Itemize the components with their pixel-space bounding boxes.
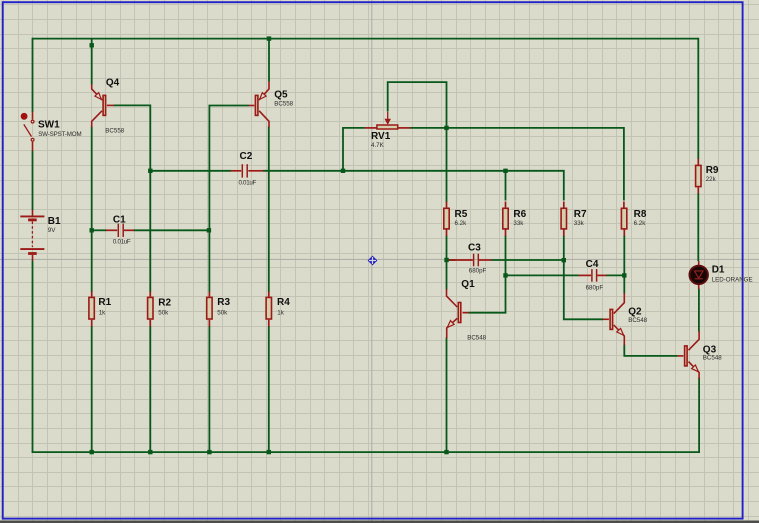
resistor R7 <box>561 202 566 237</box>
wire D1 to Q3 collector <box>698 289 700 332</box>
origin marker <box>368 256 378 266</box>
junction R6 top bus node <box>503 169 507 173</box>
wire R6 bottom to C4 node to Q1 base <box>469 236 506 313</box>
wire RV1 right terminal line to R8 <box>410 128 624 201</box>
svg-text:33k: 33k <box>574 220 585 227</box>
wire bus node to C2 left <box>150 170 231 172</box>
svg-text:1k: 1k <box>99 310 106 317</box>
svg-text:9V: 9V <box>48 227 56 234</box>
transistor Q2 <box>603 293 625 345</box>
svg-text:D1: D1 <box>712 264 725 275</box>
transistor Q4 <box>92 84 114 127</box>
potentiometer RV1 <box>365 112 411 129</box>
wire Q5 emitter to top rail <box>268 39 270 82</box>
svg-text:33k: 33k <box>513 220 524 227</box>
svg-text:R3: R3 <box>217 297 230 308</box>
svg-text:R6: R6 <box>513 209 526 220</box>
svg-text:RV1: RV1 <box>371 131 391 142</box>
svg-text:R8: R8 <box>634 209 647 220</box>
junction top rail Q5 emitter <box>267 36 271 40</box>
LED D1 <box>690 261 708 289</box>
wire R6 top drop <box>505 171 507 201</box>
battery B1 <box>20 210 44 261</box>
svg-text:680pF: 680pF <box>469 267 487 274</box>
wire Q5 collector to R4 to rail <box>268 127 270 453</box>
junction ground rail R2 <box>148 450 152 454</box>
origin axis vertical line <box>371 0 373 521</box>
resistor R4 <box>266 292 271 327</box>
wire C3 right to R7 node <box>491 259 564 261</box>
wire SW1 to B1 <box>32 151 34 211</box>
resistor R6 <box>503 202 508 237</box>
svg-text:SW1: SW1 <box>38 120 60 131</box>
svg-text:4.7K: 4.7K <box>371 142 385 149</box>
junction C1 left node <box>90 228 94 232</box>
junction ground rail R4 <box>267 450 271 454</box>
wire R8 bottom to Q2 collector <box>623 236 625 294</box>
svg-text:1k: 1k <box>277 310 284 317</box>
wire left rail top (rail to SW1) <box>32 38 34 112</box>
origin axis horizontal line <box>0 258 759 260</box>
svg-text:6.2k: 6.2k <box>455 220 468 227</box>
svg-text:50k: 50k <box>158 310 169 317</box>
resistor R8 <box>621 202 626 237</box>
svg-text:R5: R5 <box>455 209 468 220</box>
svg-text:R2: R2 <box>158 297 171 308</box>
svg-text:BC548: BC548 <box>628 317 647 324</box>
resistor R5 <box>444 202 449 237</box>
junction RV1 left bus node <box>341 169 345 173</box>
capacitor C4 <box>579 269 607 282</box>
svg-text:LED-ORANGE: LED-ORANGE <box>712 277 753 284</box>
wire Q4 collector to R1 to rail <box>91 127 93 453</box>
svg-text:Q1: Q1 <box>461 279 475 290</box>
junction ground rail R1 <box>90 450 94 454</box>
junction bus left node <box>148 169 152 173</box>
junction ground rail R3 <box>207 450 211 454</box>
switch SW1 <box>21 112 34 152</box>
wire node to R2 to rail <box>149 171 151 452</box>
svg-text:Q5: Q5 <box>274 90 288 101</box>
svg-text:C3: C3 <box>468 243 481 254</box>
svg-text:680pF: 680pF <box>586 284 604 291</box>
resistor R2 <box>148 292 153 327</box>
transistor Q1 <box>447 289 469 338</box>
wire C4 left <box>506 274 580 276</box>
capacitor C1 <box>106 224 134 237</box>
wire Q4 base down to node <box>114 105 151 170</box>
wire B1 to bottom rail <box>32 261 34 453</box>
svg-text:BC558: BC558 <box>105 128 124 135</box>
wire Q2 emitter to Q3 base <box>624 345 677 356</box>
junction top rail Q4 emitter <box>90 43 94 47</box>
junction RV1 right node <box>444 126 448 130</box>
wire C2 right bus to R7 top <box>263 171 564 201</box>
capacitor C3 <box>449 254 491 267</box>
wire RV1 left terminal to bus <box>343 128 365 171</box>
svg-text:BC548: BC548 <box>703 354 722 361</box>
junction C4 left node <box>503 273 507 277</box>
wire Q3 emitter to ground rail <box>698 378 700 454</box>
wire C4 right to R8 node <box>606 274 624 276</box>
svg-text:BC548: BC548 <box>467 334 486 341</box>
svg-text:BC558: BC558 <box>274 101 293 108</box>
wire R5 top drop <box>446 128 448 202</box>
svg-text:0.01uF: 0.01uF <box>113 238 131 245</box>
junction C4 right node <box>622 273 626 277</box>
junction C1 right node <box>207 228 211 232</box>
capacitor C2 <box>231 164 263 177</box>
svg-text:SW-SPST-MOM: SW-SPST-MOM <box>38 131 81 138</box>
svg-text:R7: R7 <box>574 209 587 220</box>
svg-text:0.01uF: 0.01uF <box>239 180 257 187</box>
wire Q5 base to R3 to rail <box>209 106 248 453</box>
svg-text:B1: B1 <box>48 216 61 227</box>
wire C1 left <box>92 229 107 231</box>
svg-text:6.2k: 6.2k <box>634 220 647 227</box>
svg-text:C1: C1 <box>113 215 126 226</box>
svg-text:Q2: Q2 <box>628 306 642 317</box>
svg-text:R4: R4 <box>277 297 290 308</box>
svg-text:Q4: Q4 <box>106 78 120 89</box>
junction ground rail Q1 emitter <box>444 450 448 454</box>
svg-text:R1: R1 <box>98 297 111 308</box>
wire R9 top to rail <box>697 38 699 159</box>
wire R9 bottom to D1 <box>697 193 699 261</box>
resistor R1 <box>89 292 94 327</box>
junction C3 right node <box>562 258 566 262</box>
junction C3 left node <box>444 258 448 262</box>
svg-text:50k: 50k <box>217 310 228 317</box>
wire top supply rail <box>33 38 699 40</box>
wire R7 bottom to Q2 base <box>564 236 603 320</box>
wire bottom ground rail <box>32 451 700 453</box>
wire C3 left <box>447 259 456 261</box>
wire Q4 emitter to top rail <box>91 39 93 85</box>
transistor Q3 <box>678 331 700 379</box>
resistor R3 <box>207 292 212 327</box>
svg-text:C2: C2 <box>240 151 253 162</box>
wire C1 right <box>134 229 209 231</box>
svg-text:22k: 22k <box>706 176 717 183</box>
wire RV1 wiper loop <box>388 82 447 128</box>
wire Q1 emitter to ground rail <box>446 338 448 453</box>
svg-text:C4: C4 <box>586 259 599 270</box>
resistor R9 <box>696 159 701 194</box>
transistor Q5 <box>249 82 270 128</box>
svg-text:R9: R9 <box>706 165 719 176</box>
wire R5 bottom to C3 node to Q1 collector <box>446 236 448 290</box>
